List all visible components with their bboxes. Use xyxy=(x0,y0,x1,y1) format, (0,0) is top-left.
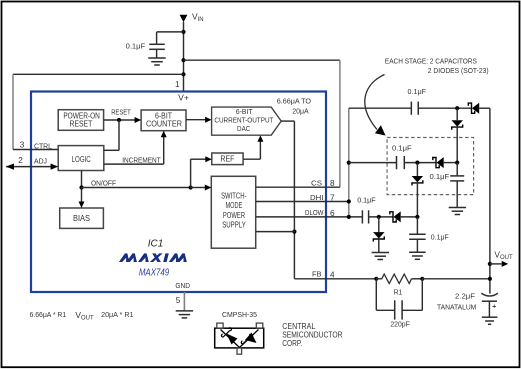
svg-text:DLOW: DLOW xyxy=(305,208,324,217)
svg-text:6.66μA TO: 6.66μA TO xyxy=(277,97,312,106)
svg-text:1: 1 xyxy=(175,80,180,89)
svg-text:0.1μF: 0.1μF xyxy=(431,233,449,242)
svg-text:INCREMENT: INCREMENT xyxy=(122,156,161,165)
svg-text:ADJ: ADJ xyxy=(34,156,47,165)
svg-text:0.1μF: 0.1μF xyxy=(408,87,427,96)
svg-text:EACH STAGE: 2 CAPACITORS: EACH STAGE: 2 CAPACITORS xyxy=(385,57,477,66)
svg-text:R1: R1 xyxy=(394,287,403,296)
svg-text:20μA * R1: 20μA * R1 xyxy=(101,310,133,319)
svg-text:V+: V+ xyxy=(178,92,189,102)
svg-text:3: 3 xyxy=(20,141,25,150)
svg-text:CTRL: CTRL xyxy=(34,141,52,150)
svg-text:SUPPLY: SUPPLY xyxy=(222,221,246,230)
svg-text:2 DIODES (SOT-23): 2 DIODES (SOT-23) xyxy=(428,66,489,75)
svg-text:IC1: IC1 xyxy=(148,238,164,249)
svg-text:220pF: 220pF xyxy=(390,320,410,329)
svg-text:RESET: RESET xyxy=(111,107,131,116)
svg-text:RESET: RESET xyxy=(70,120,93,129)
svg-text:7: 7 xyxy=(330,194,335,203)
svg-text:MODE: MODE xyxy=(225,201,242,210)
svg-text:6.66μA * R1: 6.66μA * R1 xyxy=(30,310,67,319)
svg-text:LOGIC: LOGIC xyxy=(72,155,91,164)
svg-text:BIAS: BIAS xyxy=(73,214,90,223)
svg-text:2: 2 xyxy=(18,156,23,165)
svg-text:CS: CS xyxy=(311,179,322,188)
svg-text:CMPSH-35: CMPSH-35 xyxy=(222,310,257,319)
svg-text:DAC: DAC xyxy=(237,124,251,133)
svg-text:SWITCH-: SWITCH- xyxy=(221,192,247,201)
svg-text:COUNTER: COUNTER xyxy=(146,120,182,129)
svg-text:0.1μF: 0.1μF xyxy=(126,42,146,51)
svg-text:REF: REF xyxy=(220,154,234,163)
svg-text:20μA: 20μA xyxy=(292,106,309,115)
svg-text:8: 8 xyxy=(330,179,335,188)
svg-text:0.1μF: 0.1μF xyxy=(392,143,412,152)
svg-text:POWER: POWER xyxy=(223,211,245,220)
svg-text:CORP.: CORP. xyxy=(282,339,302,348)
svg-text:GND: GND xyxy=(175,281,190,290)
svg-text:MAX749: MAX749 xyxy=(139,268,170,279)
svg-text:0.1μF: 0.1μF xyxy=(430,172,450,181)
svg-text:DHI: DHI xyxy=(310,193,324,202)
svg-text:FB: FB xyxy=(312,270,322,279)
svg-text:TANATALUM: TANATALUM xyxy=(437,303,476,312)
svg-text:2.2μF: 2.2μF xyxy=(455,291,476,300)
svg-text:+: + xyxy=(492,301,497,310)
svg-text:5: 5 xyxy=(176,296,181,305)
svg-text:0.1μF: 0.1μF xyxy=(357,196,376,205)
svg-text:6: 6 xyxy=(330,209,335,218)
svg-text:4: 4 xyxy=(330,271,335,280)
svg-text:ON/OFF: ON/OFF xyxy=(91,178,117,187)
